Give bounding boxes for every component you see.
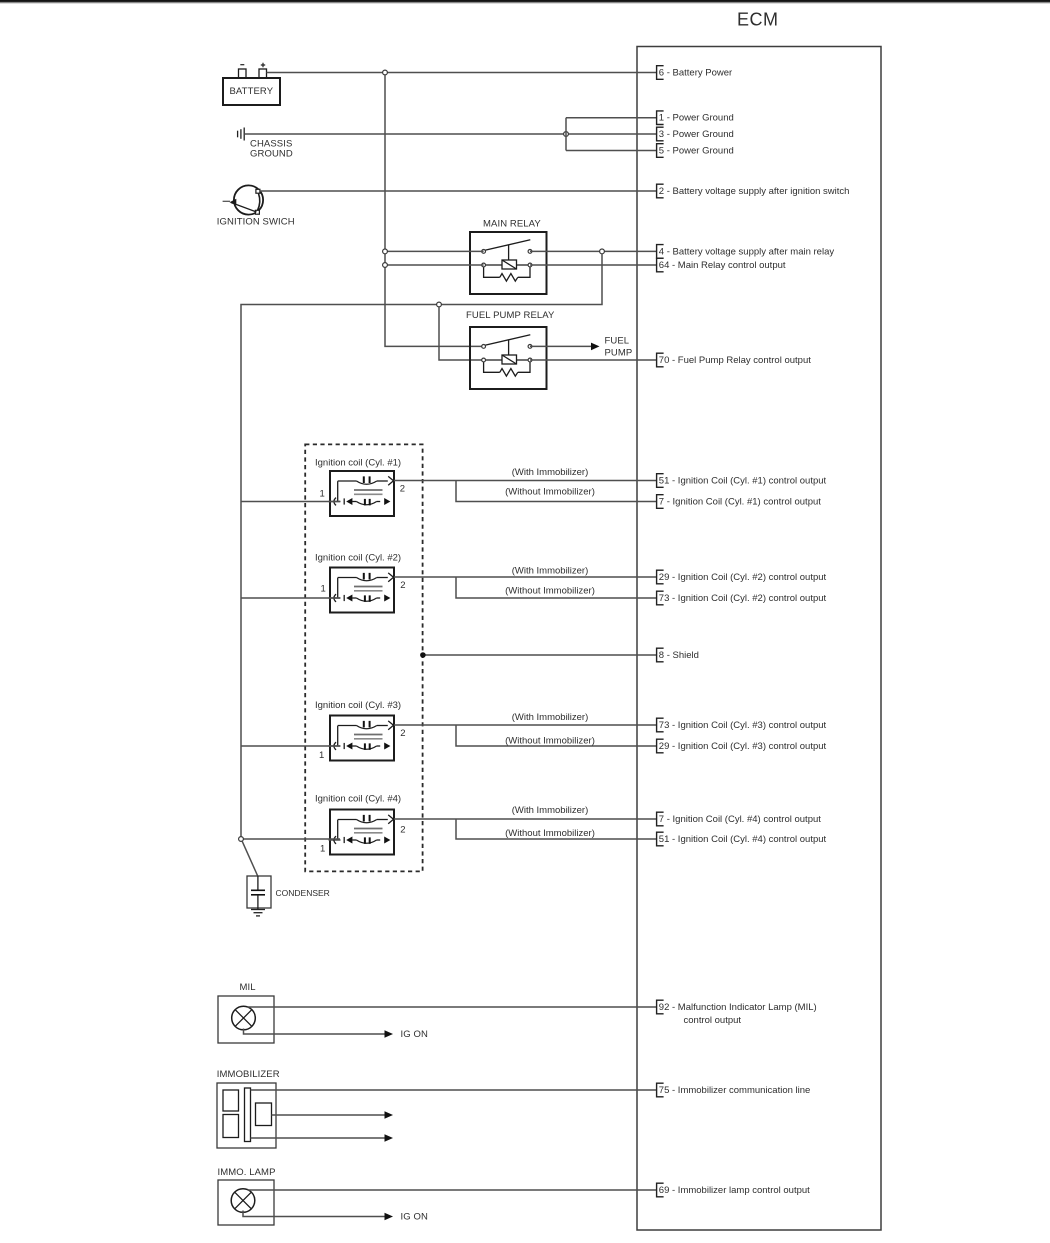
wire coil2 branch to pin 73 bbox=[456, 577, 657, 598]
pin 7 Ignition Coil Cyl1 control output bbox=[657, 495, 822, 509]
pin 92 Malfunction Indicator Lamp control output bbox=[657, 1000, 817, 1026]
wire bus to coil1 pin1 bbox=[241, 501, 340, 503]
svg-text:75 - Immobilizer communication: 75 - Immobilizer communication line bbox=[659, 1085, 811, 1096]
node bus junction at relay coil row bbox=[383, 263, 388, 268]
pin 1 Power Ground bbox=[657, 111, 734, 125]
pin 29 Ignition Coil Cyl3 control output bbox=[657, 739, 827, 753]
label with immobilizer coil4 bbox=[512, 805, 589, 816]
wire main relay coil to pin 64 bbox=[530, 264, 657, 266]
ignition coil Cyl1 bbox=[315, 458, 405, 517]
svg-text:2: 2 bbox=[400, 728, 405, 739]
wire coil1 pin2 to pin 51 bbox=[394, 480, 657, 482]
wire bus to main relay switch contact bbox=[385, 250, 484, 252]
pin 64 Main Relay control output bbox=[657, 258, 786, 272]
svg-text:MIL: MIL bbox=[240, 982, 256, 993]
pin 75 Immobilizer communication line bbox=[657, 1083, 811, 1097]
wire immobilizer to pin 75 bbox=[251, 1089, 657, 1091]
pin 4 Battery voltage supply after main relay bbox=[657, 245, 835, 259]
ignition coil Cyl2 bbox=[315, 553, 405, 613]
wire relay output down and across to coil bus bbox=[241, 254, 602, 839]
wire coil1 branch to pin 7 bbox=[456, 481, 657, 502]
wire main vertical bus from battery junction to fuel pump relay bbox=[385, 75, 484, 347]
svg-text:1: 1 bbox=[319, 750, 324, 761]
wire to pin 5 bbox=[566, 150, 657, 152]
svg-text:73 - Ignition Coil (Cyl. #3) c: 73 - Ignition Coil (Cyl. #3) control out… bbox=[659, 720, 827, 731]
wire coil4 branch to pin 51 bbox=[456, 819, 657, 839]
label with immobilizer coil3 bbox=[512, 712, 589, 723]
wire to pin 1 bbox=[566, 117, 657, 119]
svg-text:3 - Power Ground: 3 - Power Ground bbox=[659, 129, 734, 140]
pin 69 Immobilizer lamp control output bbox=[657, 1183, 811, 1197]
svg-text:ECM: ECM bbox=[737, 10, 779, 30]
ignition coil Cyl4 bbox=[315, 794, 406, 855]
wire MIL to IG ON arrow bbox=[244, 1029, 428, 1041]
svg-text:IMMOBILIZER: IMMOBILIZER bbox=[217, 1069, 280, 1080]
label without immobilizer coil3 bbox=[505, 736, 595, 747]
svg-text:Ignition coil (Cyl. #3): Ignition coil (Cyl. #3) bbox=[315, 700, 401, 711]
svg-text:1 - Power Ground: 1 - Power Ground bbox=[659, 113, 734, 124]
svg-text:GROUND: GROUND bbox=[250, 149, 293, 160]
svg-text:(With Immobilizer): (With Immobilizer) bbox=[512, 805, 589, 816]
wire immo lamp to IG ON arrow bbox=[243, 1211, 428, 1223]
pin 7 Ignition Coil Cyl4 control output bbox=[657, 812, 822, 826]
wire MIL to pin 92 bbox=[248, 1006, 657, 1008]
svg-text:92 - Malfunction Indicator Lam: 92 - Malfunction Indicator Lamp (MIL) bbox=[659, 1002, 817, 1013]
svg-text:FUEL PUMP RELAY: FUEL PUMP RELAY bbox=[466, 310, 555, 321]
pin 51 Ignition Coil Cyl1 control output bbox=[657, 474, 827, 488]
svg-text:7 - Ignition Coil (Cyl. #1) co: 7 - Ignition Coil (Cyl. #1) control outp… bbox=[659, 497, 821, 508]
main relay K1 bbox=[470, 219, 547, 295]
svg-text:Ignition coil (Cyl. #2): Ignition coil (Cyl. #2) bbox=[315, 553, 401, 564]
battery bbox=[223, 63, 280, 105]
svg-text:(Without Immobilizer): (Without Immobilizer) bbox=[505, 736, 595, 747]
pin 3 Power Ground bbox=[657, 127, 734, 141]
svg-text:(With Immobilizer): (With Immobilizer) bbox=[512, 712, 589, 723]
svg-text:PUMP: PUMP bbox=[605, 348, 633, 359]
pin 5 Power Ground bbox=[657, 144, 734, 158]
svg-text:(Without Immobilizer): (Without Immobilizer) bbox=[505, 487, 595, 498]
label without immobilizer coil1 bbox=[505, 487, 595, 498]
wire coil3 branch to pin 29 bbox=[456, 725, 657, 746]
wire bus to main relay coil contact bbox=[385, 264, 484, 266]
pin 51 Ignition Coil Cyl4 control output bbox=[657, 832, 827, 846]
shield dashed box around ignition coils bbox=[305, 444, 422, 871]
label with immobilizer coil1 bbox=[512, 467, 589, 478]
svg-text:Ignition coil (Cyl. #1): Ignition coil (Cyl. #1) bbox=[315, 458, 401, 469]
svg-text:51 - Ignition Coil (Cyl. #1) c: 51 - Ignition Coil (Cyl. #1) control out… bbox=[659, 476, 827, 487]
chassis ground symbol bbox=[238, 128, 293, 160]
label without immobilizer coil4 bbox=[505, 828, 595, 839]
label with immobilizer coil2 bbox=[512, 566, 589, 577]
MIL lamp bbox=[218, 982, 274, 1043]
condenser C1 bbox=[247, 876, 330, 916]
wire junction to fuel pump relay coil contact bbox=[439, 307, 484, 360]
wire ignition switch to pin 2 bbox=[260, 190, 657, 192]
svg-text:(With Immobilizer): (With Immobilizer) bbox=[512, 467, 589, 478]
svg-text:6 - Battery Power: 6 - Battery Power bbox=[659, 68, 732, 79]
wire bus to coil2 pin1 bbox=[241, 597, 340, 599]
svg-text:69 - Immobilizer lamp control: 69 - Immobilizer lamp control output bbox=[659, 1185, 810, 1196]
wire immobilizer output arrow 1 bbox=[272, 1111, 394, 1119]
svg-text:Ignition coil (Cyl. #4): Ignition coil (Cyl. #4) bbox=[315, 794, 401, 805]
immobilizer lamp bbox=[218, 1167, 276, 1225]
wire coil2 pin2 to pin 29 bbox=[394, 576, 657, 578]
ECM title bbox=[737, 10, 779, 30]
wire power ground vertical tie bbox=[565, 118, 567, 151]
node battery bus junction bbox=[383, 70, 388, 75]
node bus junction at relay switch row bbox=[383, 249, 388, 254]
svg-text:1: 1 bbox=[320, 489, 325, 500]
wire main relay switch to pin 4 bbox=[530, 250, 657, 252]
node shield tap bbox=[420, 652, 426, 658]
svg-text:2: 2 bbox=[400, 825, 405, 836]
svg-text:1: 1 bbox=[321, 584, 326, 595]
svg-text:(Without Immobilizer): (Without Immobilizer) bbox=[505, 828, 595, 839]
svg-text:2: 2 bbox=[400, 580, 405, 591]
svg-text:BATTERY: BATTERY bbox=[230, 86, 274, 97]
node power ground junction bbox=[564, 132, 569, 137]
pin 8 Shield bbox=[657, 648, 699, 662]
pin 70 Fuel Pump Relay control output bbox=[657, 353, 812, 367]
node junction after main relay bbox=[600, 249, 605, 254]
wire bus to coil4 pin1 bbox=[243, 838, 340, 840]
svg-text:control output: control output bbox=[684, 1015, 742, 1026]
svg-text:IGNITION SWICH: IGNITION SWICH bbox=[217, 217, 295, 228]
pin 29 Ignition Coil Cyl2 control output bbox=[657, 570, 827, 584]
wire shield to pin 8 bbox=[423, 654, 657, 656]
wire to condenser bbox=[242, 841, 258, 876]
svg-text:4 - Battery voltage supply aft: 4 - Battery voltage supply after main re… bbox=[659, 246, 835, 257]
svg-text:IG ON: IG ON bbox=[401, 1029, 428, 1040]
ECM box bbox=[637, 47, 881, 1231]
svg-text:2: 2 bbox=[400, 484, 405, 495]
node junction feeding fuel pump relay coil bbox=[437, 302, 442, 307]
svg-text:(With Immobilizer): (With Immobilizer) bbox=[512, 566, 589, 577]
wire coil3 pin2 to pin 73 bbox=[394, 724, 657, 726]
svg-text:29 - Ignition Coil (Cyl. #3) c: 29 - Ignition Coil (Cyl. #3) control out… bbox=[659, 741, 827, 752]
svg-text:51 - Ignition Coil (Cyl. #4) c: 51 - Ignition Coil (Cyl. #4) control out… bbox=[659, 834, 827, 845]
svg-text:IMMO. LAMP: IMMO. LAMP bbox=[218, 1167, 276, 1178]
svg-text:MAIN RELAY: MAIN RELAY bbox=[483, 219, 541, 230]
wire fuel pump relay switch to FUEL PUMP arrow bbox=[530, 335, 632, 358]
pin 6 Battery Power bbox=[657, 66, 733, 80]
ignition coil Cyl3 bbox=[315, 700, 406, 761]
wire fuel pump relay coil to pin 70 bbox=[530, 359, 657, 361]
fuel pump relay K2 bbox=[466, 310, 555, 389]
pin 73 Ignition Coil Cyl3 control output bbox=[657, 718, 827, 732]
pin 2 Battery voltage supply after ignition switch bbox=[657, 184, 850, 198]
wire immo lamp to pin 69 bbox=[248, 1189, 657, 1191]
svg-text:70 - Fuel Pump Relay control o: 70 - Fuel Pump Relay control output bbox=[659, 355, 811, 366]
svg-text:1: 1 bbox=[320, 844, 325, 855]
node condenser tap bbox=[239, 837, 244, 842]
svg-text:(Without Immobilizer): (Without Immobilizer) bbox=[505, 586, 595, 597]
immobilizer unit bbox=[217, 1069, 280, 1148]
wire coil4 pin2 to pin 7 bbox=[394, 818, 657, 820]
svg-text:8 - Shield: 8 - Shield bbox=[659, 650, 699, 661]
svg-text:29 - Ignition Coil (Cyl. #2) c: 29 - Ignition Coil (Cyl. #2) control out… bbox=[659, 572, 827, 583]
wire battery to pin 6 bbox=[267, 72, 657, 74]
svg-text:FUEL: FUEL bbox=[605, 335, 630, 346]
wire chassis ground to pin 3 bbox=[245, 133, 657, 135]
label without immobilizer coil2 bbox=[505, 586, 595, 597]
svg-text:73 - Ignition Coil (Cyl. #2) c: 73 - Ignition Coil (Cyl. #2) control out… bbox=[659, 593, 827, 604]
svg-text:2 - Battery voltage supply aft: 2 - Battery voltage supply after ignitio… bbox=[659, 186, 850, 197]
svg-text:5 - Power Ground: 5 - Power Ground bbox=[659, 146, 734, 157]
wire immobilizer output arrow 2 bbox=[251, 1134, 394, 1142]
ignition switch bbox=[217, 185, 295, 227]
top window border bbox=[0, 0, 1050, 4]
svg-text:IG ON: IG ON bbox=[401, 1212, 428, 1223]
svg-text:64 - Main Relay control output: 64 - Main Relay control output bbox=[659, 260, 786, 271]
wire bus to coil3 pin1 bbox=[241, 745, 340, 747]
svg-text:7 - Ignition Coil (Cyl. #4) co: 7 - Ignition Coil (Cyl. #4) control outp… bbox=[659, 814, 821, 825]
svg-text:CONDENSER: CONDENSER bbox=[276, 888, 330, 898]
pin 73 Ignition Coil Cyl2 control output bbox=[657, 591, 827, 605]
